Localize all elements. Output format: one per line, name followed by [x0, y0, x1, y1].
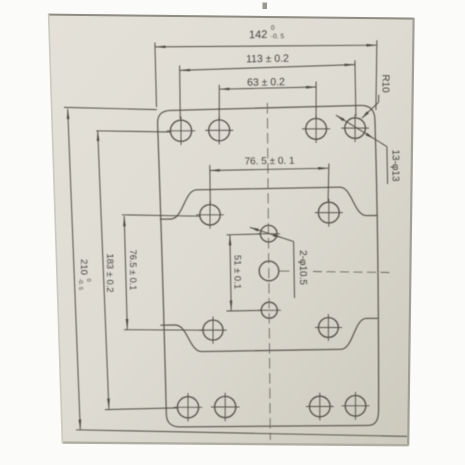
svg-text:63 ± 0.2: 63 ± 0.2 — [247, 76, 285, 89]
svg-text:51 ± 0.1: 51 ± 0.1 — [231, 255, 242, 289]
svg-text:76.5 ± 0.1: 76.5 ± 0.1 — [128, 250, 138, 291]
svg-text:0: 0 — [271, 25, 275, 32]
svg-text:210: 210 — [78, 259, 89, 275]
svg-text:142: 142 — [249, 29, 268, 41]
svg-text:183 ± 0.2: 183 ± 0.2 — [105, 253, 116, 292]
svg-text:2-φ10.5: 2-φ10.5 — [297, 250, 308, 285]
svg-text:76. 5 ± 0. 1: 76. 5 ± 0. 1 — [244, 156, 295, 168]
svg-text:-0. 5: -0. 5 — [77, 279, 83, 291]
svg-text:-0. 5: -0. 5 — [271, 33, 284, 40]
svg-text:R10: R10 — [379, 74, 390, 93]
svg-text:113 ± 0.2: 113 ± 0.2 — [246, 53, 289, 66]
svg-text:13-φ13: 13-φ13 — [390, 149, 401, 181]
svg-text:0: 0 — [85, 279, 91, 282]
